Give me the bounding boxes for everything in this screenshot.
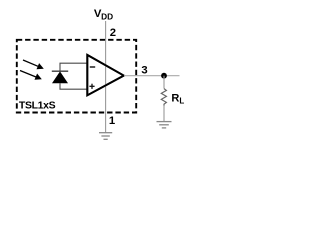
wire: output pin 3	[124, 75, 180, 77]
svg-text:R: R	[171, 92, 179, 104]
op-amp non-inverting input + sign	[89, 84, 94, 89]
wire: resistor to ground	[163, 106, 165, 122]
svg-text:1: 1	[109, 115, 115, 127]
svg-text:TSL1xS: TSL1xS	[19, 100, 56, 112]
dashed package outline TSL1xS	[17, 40, 136, 113]
svg-text:3: 3	[141, 65, 147, 77]
photodiode cathode bar	[52, 70, 68, 72]
light arrow 2	[20, 71, 42, 80]
svg-text:2: 2	[110, 27, 116, 39]
op-amp inverting input - sign	[90, 66, 95, 68]
wire: photodiode cathode to inverting input	[60, 63, 87, 71]
wire: photodiode anode to non-inverting input	[60, 83, 87, 89]
ground (pin 1)	[99, 133, 112, 140]
label RL	[171, 92, 184, 105]
resistor RL	[161, 89, 166, 106]
op-amp U1 outline (redrawn over supply line)	[87, 55, 124, 95]
svg-text:DD: DD	[101, 12, 113, 22]
photodiode D1	[52, 71, 68, 83]
svg-text:L: L	[179, 97, 184, 106]
light arrow 1	[23, 60, 44, 69]
wire: VDD supply line through amplifier to ground	[105, 21, 107, 133]
ground (load)	[157, 122, 172, 128]
node: output junction	[161, 73, 167, 79]
label VDD	[94, 8, 113, 22]
wire: junction down to resistor	[163, 76, 165, 89]
op-amp U1	[87, 55, 124, 95]
